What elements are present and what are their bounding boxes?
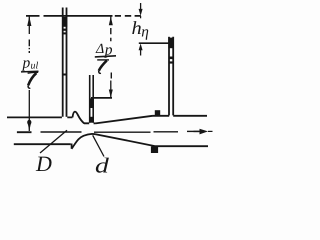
boss (tap flange) on bottom wall [151,146,158,153]
piezometer tube 3 [168,37,173,116]
node: liquid level line of tube 1 (datum) [26,15,141,17]
node: liquid level line of tube 3 [139,42,174,44]
label delta-p over gamma [95,41,116,73]
node: liquid level line of tube 2 [91,97,112,99]
label h_n [132,19,150,40]
svg-text:η: η [141,24,149,41]
pipe centerline (dash-dot axis) [17,130,194,133]
svg-text:Δ: Δ [95,42,104,57]
pipe bottom wall with venturi lip [14,134,208,149]
svg-text:ul: ul [31,61,39,72]
dimension delta-p/gamma vertical line [109,16,113,97]
label p_ul over gamma [21,55,39,89]
svg-text:d: d [95,154,109,175]
pipe top wall with venturi nozzle crest [7,112,207,124]
leader line for d [93,135,104,156]
svg-text:D: D [35,151,52,175]
piezometer tube 1 [62,8,67,117]
dimension h_n arrows [139,3,143,56]
svg-text:h: h [132,19,142,39]
dimension p_ul/gamma vertical line [27,16,31,131]
svg-text:p: p [22,55,31,72]
piezometer tube 2 (throat) [89,75,94,123]
flow direction arrow [194,129,213,135]
leader line for D [40,130,67,153]
boss (tap flange) on top wall [155,110,160,116]
